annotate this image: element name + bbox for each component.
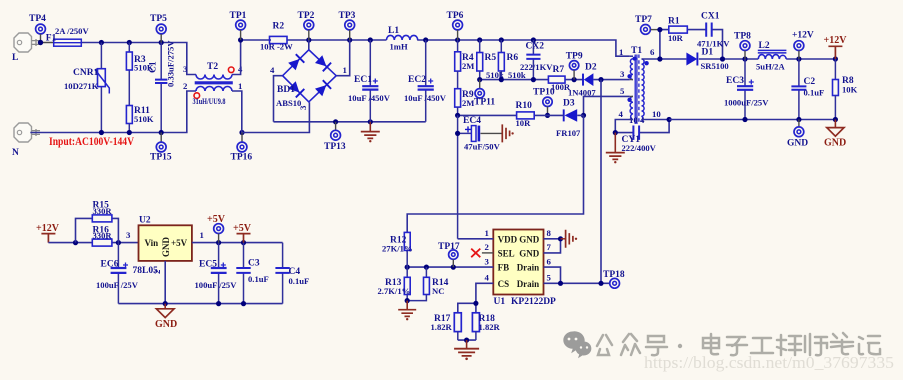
wire FB line	[405, 265, 494, 270]
svg-text:0.1uF: 0.1uF	[289, 276, 310, 286]
svg-text:3: 3	[620, 69, 625, 79]
node junction dots on N line	[99, 130, 245, 135]
svg-text:3: 3	[126, 230, 131, 240]
resistor R10	[455, 101, 564, 128]
svg-text:100uF /25V: 100uF /25V	[96, 280, 139, 290]
svg-text:C1: C1	[149, 61, 159, 73]
svg-text:100uF /25V: 100uF /25V	[195, 280, 238, 290]
capacitor EC3	[724, 59, 769, 120]
svg-text:1: 1	[200, 230, 204, 240]
svg-text:+12V: +12V	[824, 35, 848, 46]
power port GND circle	[787, 120, 808, 149]
capacitor C2	[791, 59, 824, 120]
svg-text:TP13: TP13	[324, 142, 346, 152]
capacitor CX1	[697, 12, 730, 49]
svg-text:GND: GND	[824, 138, 846, 149]
svg-text:R2: R2	[273, 22, 285, 32]
power port GND triangle	[824, 120, 846, 149]
svg-text:4: 4	[619, 109, 624, 119]
svg-text:TP6: TP6	[447, 11, 464, 21]
wire L line	[41, 43, 197, 75]
svg-text:330R: 330R	[93, 230, 113, 240]
wire Drain pins 5 6	[544, 267, 610, 286]
capacitor C1	[149, 40, 176, 133]
wire 12V rail to U2	[48, 240, 138, 245]
power port GND triangle 5V	[155, 304, 177, 330]
svg-text:VDD: VDD	[498, 234, 518, 244]
svg-text:L2: L2	[759, 41, 770, 51]
svg-text:10R: 10R	[516, 118, 532, 128]
svg-text:+5V: +5V	[233, 223, 252, 234]
capacitor EC4	[455, 115, 501, 238]
svg-text:TP10: TP10	[533, 88, 555, 98]
ground U1 pin8 earth	[561, 230, 578, 248]
svg-text:10K: 10K	[842, 85, 858, 95]
resistor R15	[76, 201, 119, 243]
svg-text:BD1: BD1	[277, 85, 295, 95]
svg-text:2: 2	[485, 242, 490, 252]
test point TP6	[447, 11, 464, 40]
resistor R4	[455, 40, 475, 71]
test point TP3	[339, 11, 356, 40]
svg-text:10uF /450V: 10uF /450V	[348, 93, 391, 103]
ground primary earth	[361, 122, 380, 143]
svg-text:GND: GND	[519, 248, 540, 258]
resistor R7	[548, 65, 570, 92]
svg-text:https://blog.csdn.net/m0_37697: https://blog.csdn.net/m0_37697335	[644, 353, 894, 372]
svg-text:Drain: Drain	[517, 279, 540, 289]
power port +12V circle	[792, 31, 814, 60]
resistor R3	[126, 43, 153, 106]
wire VDD feed	[458, 238, 494, 240]
capacitor EC5	[195, 243, 238, 304]
resistor R1	[668, 17, 687, 44]
svg-text:3: 3	[183, 64, 188, 74]
ground FB divider earth	[398, 301, 416, 321]
svg-text:6: 6	[547, 256, 552, 266]
inductor L2	[756, 41, 786, 72]
svg-text:EC2: EC2	[408, 75, 426, 85]
svg-text:CX2: CX2	[526, 42, 545, 52]
power port +12V bar	[824, 35, 848, 59]
svg-text:+5V: +5V	[171, 238, 188, 248]
svg-text:GND: GND	[155, 319, 177, 330]
svg-text:D1: D1	[702, 48, 714, 58]
resistor R14	[405, 267, 449, 303]
svg-text:0.1uF: 0.1uF	[248, 274, 269, 284]
pin SEL no-connect X	[471, 249, 493, 258]
resistor R5	[477, 40, 504, 80]
wire 5V ground bus	[118, 301, 282, 306]
connector L	[12, 33, 40, 63]
common mode choke T2	[183, 62, 243, 106]
svg-text:222/1KV: 222/1KV	[520, 62, 553, 72]
svg-text:Input:AC100V-144V: Input:AC100V-144V	[49, 136, 135, 148]
svg-text:NC: NC	[432, 286, 444, 296]
test point TP16	[231, 133, 253, 163]
svg-text:2M: 2M	[462, 61, 474, 71]
svg-text:TP1: TP1	[230, 11, 247, 21]
svg-text:TP7: TP7	[635, 15, 652, 25]
test point TP8	[734, 32, 751, 60]
svg-text:0.33uF/275V: 0.33uF/275V	[166, 40, 176, 87]
resistor R16	[92, 226, 112, 247]
svg-text:T2: T2	[207, 62, 218, 72]
resistor R11	[126, 106, 153, 133]
svg-text:1: 1	[343, 65, 347, 75]
svg-text:TP5: TP5	[150, 14, 167, 24]
wire CS net	[458, 283, 494, 313]
svg-text:TP9: TP9	[566, 52, 583, 62]
svg-text:GND: GND	[161, 237, 171, 258]
test point TP13	[324, 122, 346, 152]
test point TP9	[566, 52, 583, 80]
svg-text:TP4: TP4	[29, 14, 46, 24]
svg-text:TP8: TP8	[734, 32, 751, 42]
svg-text:L: L	[12, 53, 18, 63]
svg-text:EC1: EC1	[354, 75, 372, 85]
svg-text:330R: 330R	[93, 206, 113, 216]
svg-text:2M: 2M	[462, 98, 474, 108]
capacitor EC1	[348, 40, 391, 122]
svg-text:CNR1: CNR1	[73, 68, 99, 78]
svg-text:EC5: EC5	[199, 260, 217, 270]
power port +12V bar left	[36, 223, 60, 243]
resistor R9	[455, 71, 475, 115]
test point TP7	[635, 15, 660, 34]
ground CY1 earth	[606, 133, 625, 164]
power port +5V bar	[233, 223, 252, 243]
svg-text:TP3: TP3	[339, 11, 356, 21]
svg-text:CS: CS	[498, 279, 510, 289]
svg-text:R10: R10	[516, 101, 533, 111]
resistor R2	[260, 22, 293, 52]
svg-text:4: 4	[485, 273, 490, 283]
power port +5V circle	[207, 214, 226, 243]
resistor R13	[378, 267, 411, 301]
node junction dots on rectified bus	[238, 37, 536, 42]
svg-text:TP11: TP11	[474, 98, 495, 108]
test point TP18	[603, 270, 625, 288]
svg-text:5: 5	[620, 86, 625, 96]
capacitor CY1	[622, 126, 657, 154]
node junction dots on L line	[38, 40, 164, 45]
svg-text:5: 5	[547, 273, 552, 283]
svg-text:GND: GND	[519, 234, 540, 244]
svg-text:10R: 10R	[668, 33, 684, 43]
wire aux winding pin5	[581, 96, 630, 118]
svg-text:FB: FB	[498, 263, 510, 273]
svg-text:EC6: EC6	[101, 260, 119, 270]
test point TP11	[474, 80, 495, 108]
wire T1 pin4 and CY1 branch	[613, 117, 672, 135]
wire GND pins 7 8	[544, 236, 564, 253]
resistor R6	[498, 40, 525, 80]
transformer T1	[619, 46, 662, 125]
diode D3	[556, 99, 584, 139]
svg-text:10uF /450V: 10uF /450V	[404, 93, 447, 103]
svg-text:510K: 510K	[134, 114, 154, 124]
resistor R18	[472, 313, 500, 340]
svg-text:0.1uF: 0.1uF	[804, 88, 825, 98]
svg-text:U2: U2	[139, 216, 151, 226]
svg-text:SEL: SEL	[498, 248, 515, 258]
svg-text:1: 1	[619, 47, 623, 57]
capacitor CX2	[520, 40, 553, 80]
wire T1 pin1 stub	[630, 56, 633, 96]
svg-text:3: 3	[298, 105, 308, 110]
ground CS earth	[454, 340, 479, 360]
svg-text:+12V: +12V	[792, 31, 814, 41]
wire drain net vertical	[600, 80, 602, 284]
svg-text:1.82R: 1.82R	[479, 322, 501, 332]
svg-text:10D271K: 10D271K	[64, 81, 99, 91]
svg-text:2.7K/1%: 2.7K/1%	[378, 286, 411, 296]
wire N line	[30, 91, 196, 133]
svg-text:EC3: EC3	[726, 76, 744, 86]
svg-text:222/400V: 222/400V	[622, 143, 657, 153]
svg-text:47uF/50V: 47uF/50V	[464, 142, 501, 152]
svg-text:GND: GND	[787, 139, 808, 149]
wire primary DC minus bus	[274, 119, 426, 124]
svg-text:10: 10	[652, 109, 661, 119]
varistor CNR1	[64, 43, 109, 133]
wire snubber branch	[657, 27, 722, 59]
wire CS resistor bottoms	[458, 338, 476, 343]
svg-text:TP16: TP16	[231, 153, 253, 163]
svg-text:6: 6	[650, 47, 655, 57]
svg-text:U1: U1	[494, 297, 506, 307]
svg-text:SR5100: SR5100	[701, 61, 729, 71]
test point TP2	[298, 11, 315, 40]
resistor R12	[382, 232, 413, 267]
fuse F1	[46, 26, 90, 46]
wire aux to FB divider	[407, 115, 583, 232]
svg-text:31uH/UU9.8: 31uH/UU9.8	[193, 96, 227, 106]
svg-text:TP17: TP17	[438, 242, 460, 252]
svg-text:27K/1%: 27K/1%	[382, 244, 413, 254]
regulator U2	[126, 216, 204, 277]
bridge rectifier BD1	[270, 40, 350, 122]
svg-text:TP2: TP2	[298, 11, 315, 21]
resistor R8	[833, 59, 858, 120]
svg-text:KP2122DP: KP2122DP	[511, 297, 556, 307]
svg-text:Vin: Vin	[145, 238, 159, 248]
ground EC4 right earth	[481, 124, 514, 142]
svg-text:1000uF/25V: 1000uF/25V	[724, 98, 769, 108]
ic U1 KP2122DP	[485, 228, 557, 307]
svg-text:10R -2W: 10R -2W	[260, 42, 293, 52]
svg-text:2A /250V: 2A /250V	[55, 26, 89, 36]
wire secondary top bus	[642, 56, 839, 61]
svg-text:EC4: EC4	[463, 116, 481, 126]
svg-text:R1: R1	[668, 17, 680, 27]
svg-text:C2: C2	[804, 77, 816, 87]
svg-text:C3: C3	[248, 259, 260, 269]
test point TP5	[150, 14, 167, 43]
svg-text:TP18: TP18	[603, 270, 625, 280]
diode D1	[686, 48, 728, 72]
capacitor C4	[275, 243, 309, 304]
diode D2	[568, 63, 597, 98]
svg-text:N: N	[12, 148, 19, 158]
svg-text:Drain: Drain	[517, 263, 540, 273]
svg-text:5uH/2A: 5uH/2A	[756, 62, 785, 72]
svg-text:+12V: +12V	[36, 223, 60, 234]
connector N	[12, 123, 40, 158]
svg-text:R7: R7	[553, 65, 565, 75]
svg-text:1mH: 1mH	[390, 42, 408, 52]
wire T2 pin4 to TP1 bus	[232, 40, 241, 75]
wire clamp bus	[477, 77, 630, 82]
svg-text:2: 2	[183, 81, 188, 91]
svg-text:+5V: +5V	[207, 214, 226, 225]
capacitor EC2	[404, 40, 447, 122]
svg-text:R6: R6	[507, 53, 519, 63]
svg-text:R5: R5	[485, 53, 497, 63]
svg-text:CX1: CX1	[701, 12, 720, 22]
svg-text:4: 4	[270, 65, 275, 75]
test point TP10	[533, 88, 555, 119]
watermark wechat icon	[563, 331, 591, 358]
resistor R17	[431, 313, 462, 340]
test point TP15	[150, 133, 172, 163]
watermark text gongzhonghao	[597, 333, 880, 355]
svg-text:1: 1	[238, 81, 242, 91]
svg-text:1: 1	[485, 228, 489, 238]
capacitor EC6	[96, 243, 139, 304]
svg-text:TP15: TP15	[150, 153, 172, 163]
wire U2 gnd stem	[164, 261, 166, 304]
svg-text:1.82R: 1.82R	[431, 322, 453, 332]
svg-text:7: 7	[547, 242, 552, 252]
svg-text:FR107: FR107	[556, 128, 581, 138]
wire secondary bottom bus	[669, 117, 838, 122]
test point TP4	[29, 14, 46, 43]
svg-text:L1: L1	[388, 26, 399, 36]
capacitor C3	[236, 243, 268, 304]
test point TP1	[230, 11, 247, 40]
wire rectified bus	[241, 40, 630, 56]
svg-text:D3: D3	[563, 99, 575, 109]
svg-text:D2: D2	[585, 63, 597, 73]
wire T2 pin1 down to bridge AC	[232, 91, 309, 133]
test point TP17	[438, 242, 460, 267]
inductor L1	[387, 26, 418, 52]
svg-text:8: 8	[547, 228, 552, 238]
svg-text:2: 2	[152, 269, 162, 274]
svg-text:3: 3	[485, 256, 490, 266]
wire 5V rail	[192, 240, 283, 245]
